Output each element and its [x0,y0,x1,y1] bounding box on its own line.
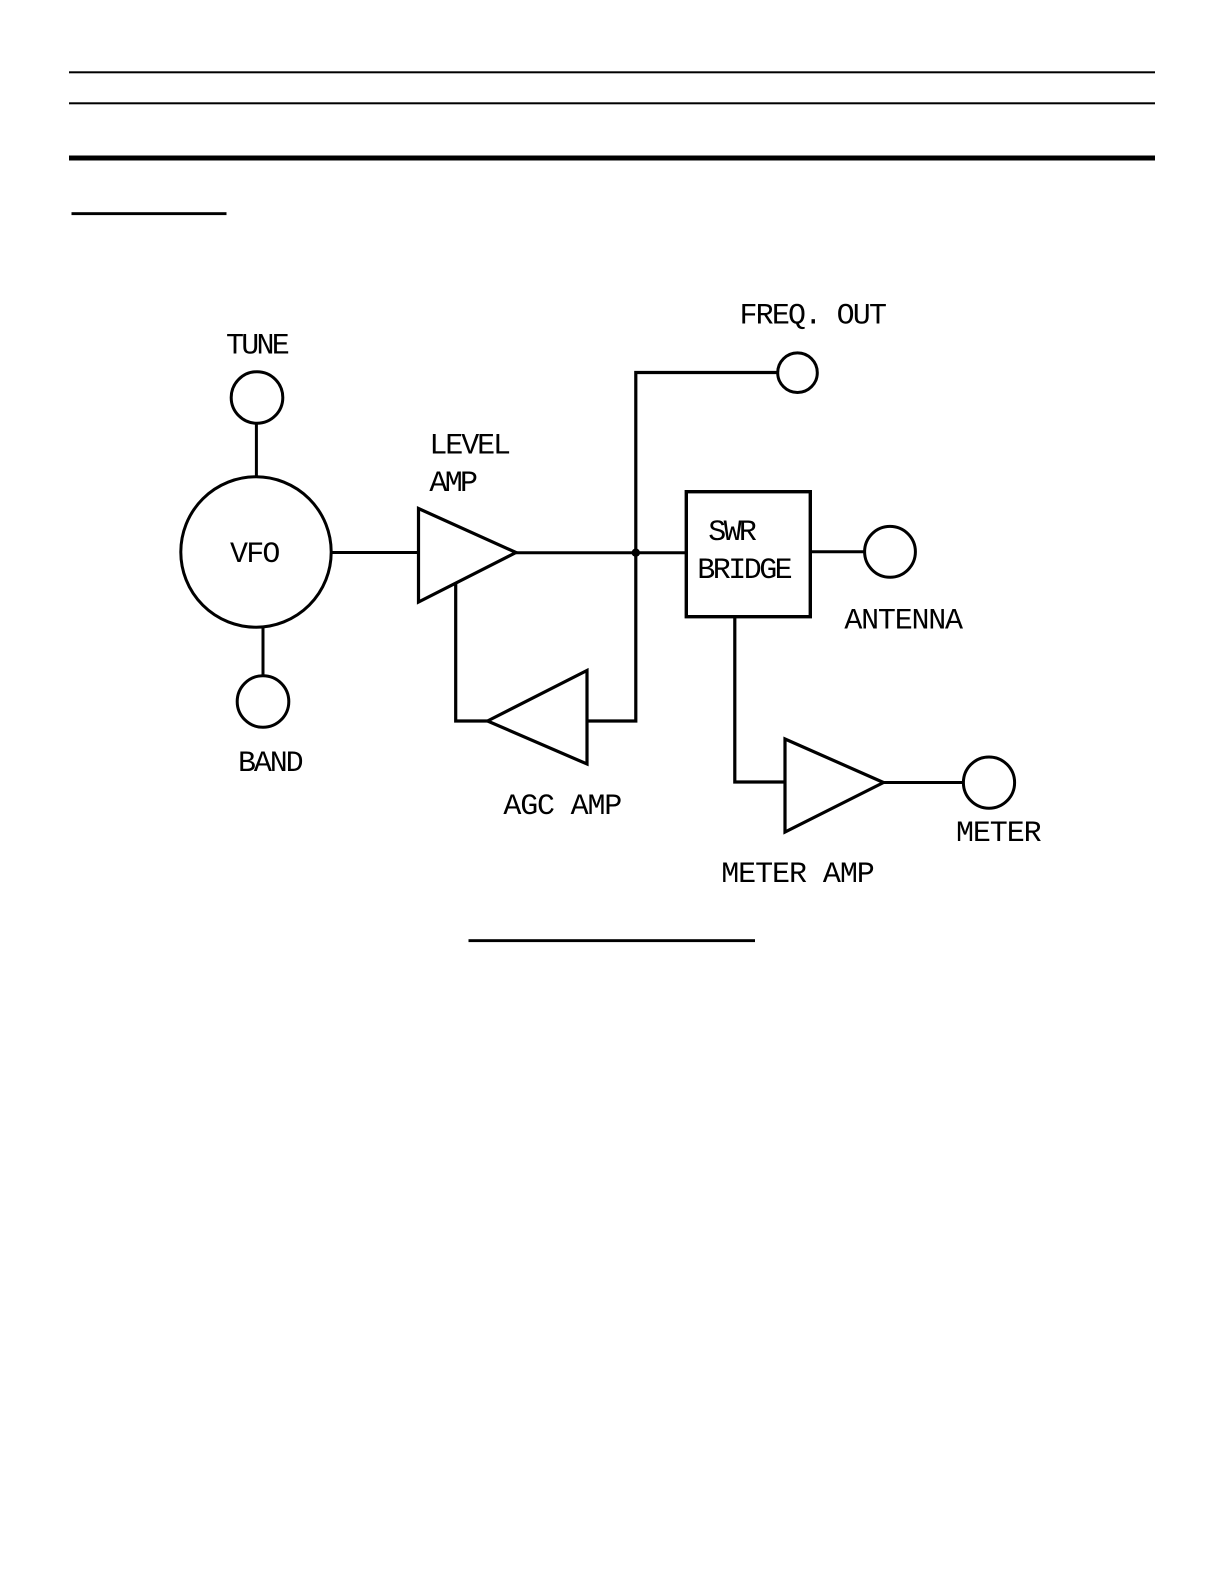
section heading underline [72,212,227,215]
node junction [632,549,640,557]
wire METER AMP to METER [884,781,964,784]
amplifier AGC AMP [488,671,588,765]
wire LEVEL AMP to SWR BRIDGE [516,551,686,554]
svg-text:VFO: VFO [230,538,280,572]
wire VFO to BAND [262,627,265,676]
amplifier METER AMP [785,739,884,832]
svg-text:METER AMP: METER AMP [721,858,875,892]
svg-text:BAND: BAND [238,747,304,781]
oscillator VFO [181,477,331,627]
page rule thin 1 [69,71,1155,73]
TUNE connector circle [231,372,283,424]
FREQ. OUT connector circle [778,353,818,393]
svg-text:AMP: AMP [429,467,478,501]
svg-text:METER: METER [956,817,1042,851]
page rule thick [69,156,1155,161]
amplifier LEVEL AMP [419,509,517,603]
figure caption underline [469,939,756,942]
wire junction to AGC AMP input [587,553,636,721]
label LEVEL AMP [429,429,511,501]
svg-text:AGC AMP: AGC AMP [503,790,622,824]
svg-text:FREQ. OUT: FREQ. OUT [740,300,888,334]
svg-text:ANTENNA: ANTENNA [844,605,963,639]
svg-text:LEVEL: LEVEL [429,429,511,463]
wire junction to FREQ. OUT [636,373,778,553]
wire SWR BRIDGE to ANTENNA [812,550,865,553]
svg-text:TUNE: TUNE [226,330,290,364]
wire TUNE to VFO [255,423,258,477]
page rule thin 2 [69,102,1155,104]
svg-text:SWR: SWR [708,516,757,550]
wire AGC AMP output to LEVEL AMP [456,583,488,722]
METER connector circle [963,757,1014,808]
block SWR BRIDGE [686,492,810,617]
BAND connector circle [237,676,289,728]
svg-text:BRIDGE: BRIDGE [697,554,793,588]
wire VFO to LEVEL AMP [331,551,418,554]
wire SWR BRIDGE to METER AMP [735,617,785,782]
ANTENNA connector circle [865,526,916,577]
